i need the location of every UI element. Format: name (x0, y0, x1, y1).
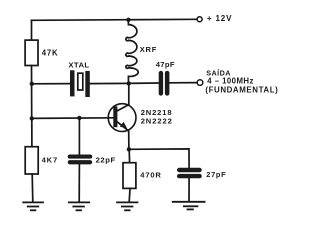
transistor emitter arrow (120, 122, 127, 129)
wire crystal right (90, 82, 129, 84)
svg-text:(FUNDAMENTAL): (FUNDAMENTAL) (205, 86, 278, 95)
node junction crystal / coil / collector / output (127, 81, 131, 85)
transistor base bar (113, 106, 117, 127)
capacitor 47pF (159, 71, 170, 96)
node junction emitter / 470R / 27pF (127, 147, 131, 151)
ground G3 (116, 202, 138, 210)
svg-text:XTAL: XTAL (68, 61, 89, 70)
node junction top rail / coil (126, 18, 130, 22)
wire left rail lower (31, 118, 33, 146)
crystal XTAL (70, 70, 90, 97)
wire left rail upper (31, 20, 33, 40)
transistor Q1 2N2218/2N2222 (108, 104, 136, 132)
resistor 470R (123, 163, 136, 189)
svg-text:470R: 470R (140, 170, 161, 179)
capacitor 27pF (177, 168, 202, 178)
svg-text:XRF: XRF (140, 45, 158, 54)
resistor 47K (25, 40, 38, 65)
svg-text:2N2222: 2N2222 (141, 116, 173, 125)
resistor 4K7 (25, 147, 38, 174)
svg-text:22pF: 22pF (96, 155, 116, 164)
terminal SAIDA output (197, 80, 203, 86)
svg-text:4K7: 4K7 (42, 155, 58, 164)
wire emitter to 470R (128, 149, 130, 162)
svg-text:47pF: 47pF (156, 60, 175, 69)
wire collector (118, 83, 129, 110)
wire top rail (32, 19, 198, 20)
wire 27pF to ground (188, 178, 190, 201)
svg-text:47K: 47K (42, 49, 59, 58)
wire emitter to 27pF (129, 149, 189, 168)
wire 4K7 to ground (31, 174, 34, 202)
wire 470R to ground (128, 188, 131, 202)
wire crystal left (32, 83, 70, 85)
capacitor 22pF (68, 155, 93, 165)
node junction base / left rail (30, 116, 34, 120)
transistor emitter (118, 122, 129, 149)
node junction base / 22pF (77, 116, 81, 120)
svg-text:+ 12V: + 12V (207, 14, 232, 23)
wire 22pF lower (78, 164, 80, 202)
svg-text:27pF: 27pF (206, 170, 226, 179)
terminal +12V (197, 17, 202, 22)
inductor XRF (126, 20, 138, 84)
svg-text:4 – 100MHz: 4 – 100MHz (207, 77, 254, 86)
ground G4 (172, 202, 206, 210)
ground G2 (68, 202, 90, 210)
node junction left rail / crystal (30, 82, 34, 86)
wire 22pF upper (78, 118, 80, 155)
wire junction to 47pF (129, 82, 159, 84)
wire 47pF to output terminal (169, 82, 197, 84)
transistor collector inside (118, 105, 129, 111)
wire left rail middle (31, 66, 33, 119)
ground G1 (22, 202, 44, 210)
wire base rail (32, 117, 114, 120)
